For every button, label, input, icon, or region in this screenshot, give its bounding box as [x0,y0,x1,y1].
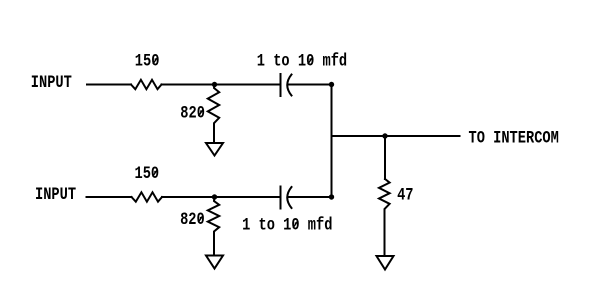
node A (top junction) [212,82,217,87]
resistor R1 150 (top series) [131,80,162,89]
wire bus vertical [331,85,333,198]
slashed-zero mark on 150 (bottom) [153,170,158,177]
wire output to intercom [332,135,460,137]
wire R1 to C1 [162,84,281,86]
slashed-zero mark on 820 (top) [198,109,203,116]
capacitor C2 curved plate [287,187,291,208]
capacitor C1 left plate [280,74,282,96]
svg-text:47: 47 [397,185,413,205]
node B (top bus corner) [329,82,334,87]
capacitor C2 left plate [280,187,282,209]
resistor R4 820 (bottom shunt) [208,197,219,256]
resistor R3 150 (bottom series) [132,192,163,201]
capacitor C1 curved plate [287,75,291,96]
slashed-zero mark on 150 (top) [153,57,158,64]
node E (47 branch junction) [382,133,387,138]
ground (bottom 820) [206,256,223,269]
slashed-zero mark on 820 (bottom) [198,215,203,222]
resistor R5 47 (shunt) [379,179,390,256]
ground (47) [377,256,394,270]
wire C1 to bus [288,84,332,86]
svg-text:1 to 10 mfd: 1 to 10 mfd [257,51,347,71]
wire input2 to R3 [87,196,132,198]
svg-text:1 to 10 mfd: 1 to 10 mfd [242,215,332,235]
slashed-zero mark on 10 mfd (top) [308,57,313,64]
wire R3 to C2 [162,196,281,198]
wire node E to R5 [384,136,386,179]
svg-text:INPUT: INPUT [35,184,76,204]
resistor R2 820 (top shunt) [208,85,219,144]
svg-text:INPUT: INPUT [31,72,72,92]
wire input1 to R1 [87,84,131,86]
node D (bottom bus corner) [329,194,334,199]
wire C2 to bus [288,196,332,198]
svg-text:TO INTERCOM: TO INTERCOM [469,128,559,148]
node C (bottom junction) [212,194,217,199]
slashed-zero mark on 10 mfd (bottom) [293,221,298,228]
ground (top 820) [206,143,223,156]
